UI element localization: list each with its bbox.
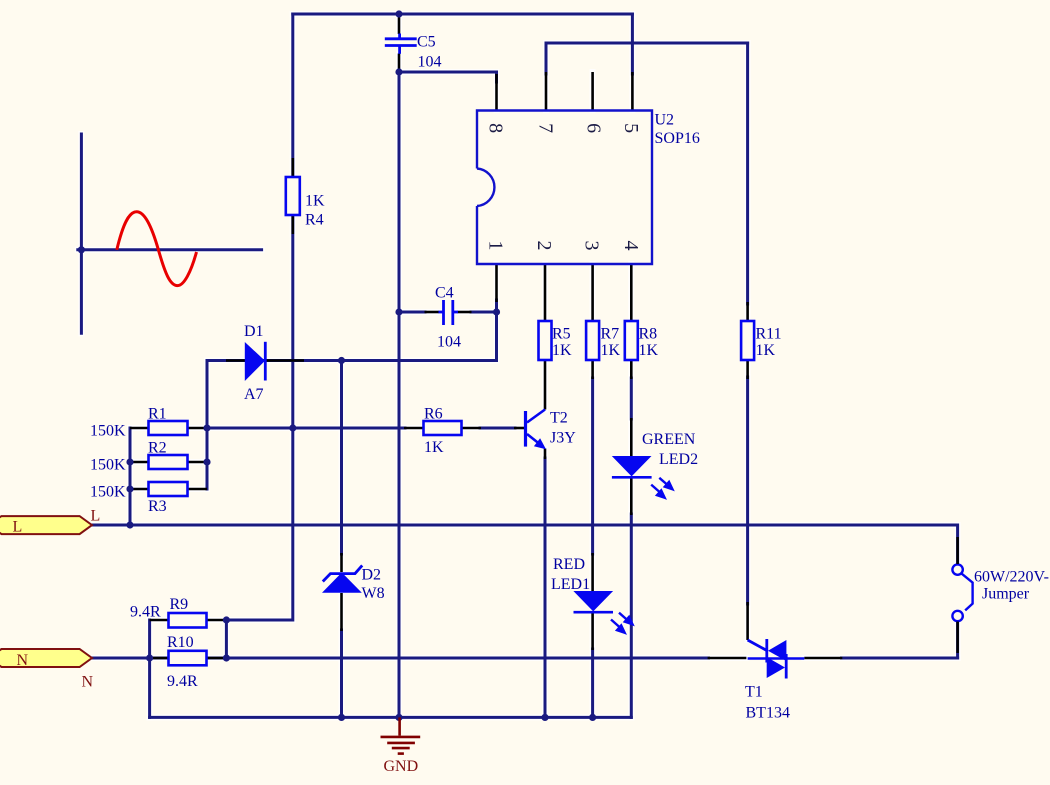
svg-text:N: N	[82, 674, 94, 691]
svg-text:T2: T2	[550, 410, 568, 427]
svg-text:104: 104	[437, 334, 461, 351]
svg-text:C4: C4	[435, 285, 454, 302]
svg-text:R11: R11	[756, 326, 782, 343]
svg-text:D2: D2	[362, 567, 382, 584]
svg-text:R1: R1	[148, 406, 167, 423]
svg-text:R6: R6	[424, 406, 443, 423]
svg-text:2: 2	[533, 241, 555, 251]
svg-text:5: 5	[620, 123, 642, 133]
svg-text:3: 3	[581, 241, 603, 251]
svg-text:1K: 1K	[424, 439, 444, 456]
svg-text:W8: W8	[362, 585, 385, 602]
svg-text:R10: R10	[167, 634, 194, 651]
svg-text:6: 6	[583, 123, 605, 133]
svg-text:Jumper: Jumper	[982, 586, 1030, 603]
svg-text:9.4R: 9.4R	[167, 673, 198, 690]
svg-text:1K: 1K	[601, 342, 621, 359]
svg-text:L: L	[91, 508, 101, 525]
svg-text:N: N	[17, 652, 29, 669]
svg-text:1K: 1K	[552, 342, 572, 359]
svg-text:U2: U2	[655, 112, 675, 129]
svg-text:4: 4	[620, 241, 642, 251]
svg-text:R3: R3	[148, 498, 167, 515]
svg-text:150K: 150K	[90, 457, 126, 474]
svg-text:7: 7	[535, 123, 557, 133]
svg-text:D1: D1	[244, 323, 264, 340]
svg-text:C5: C5	[417, 34, 436, 51]
svg-text:104: 104	[418, 54, 442, 71]
svg-text:R8: R8	[639, 326, 658, 343]
svg-text:1K: 1K	[756, 342, 776, 359]
svg-text:BT134: BT134	[746, 705, 790, 722]
svg-text:A7: A7	[244, 386, 264, 403]
svg-text:1K: 1K	[639, 342, 659, 359]
svg-text:RED: RED	[553, 556, 585, 573]
svg-text:R4: R4	[305, 212, 324, 229]
svg-text:LED2: LED2	[659, 451, 698, 468]
svg-text:LED1: LED1	[551, 576, 590, 593]
svg-text:1K: 1K	[305, 193, 325, 210]
svg-text:R2: R2	[148, 440, 167, 457]
svg-text:R7: R7	[601, 326, 620, 343]
svg-text:150K: 150K	[90, 484, 126, 501]
svg-text:R9: R9	[170, 596, 189, 613]
svg-text:60W/220V-: 60W/220V-	[974, 569, 1049, 586]
svg-text:1: 1	[485, 241, 507, 251]
svg-text:8: 8	[485, 123, 507, 133]
svg-text:J3Y: J3Y	[550, 429, 576, 446]
svg-text:T1: T1	[745, 684, 763, 701]
svg-text:150K: 150K	[90, 423, 126, 440]
svg-text:R5: R5	[552, 326, 571, 343]
svg-text:9.4R: 9.4R	[130, 604, 161, 621]
svg-text:L: L	[13, 519, 23, 536]
svg-text:GREEN: GREEN	[642, 431, 696, 448]
svg-text:GND: GND	[384, 758, 419, 775]
svg-text:SOP16: SOP16	[655, 130, 700, 147]
